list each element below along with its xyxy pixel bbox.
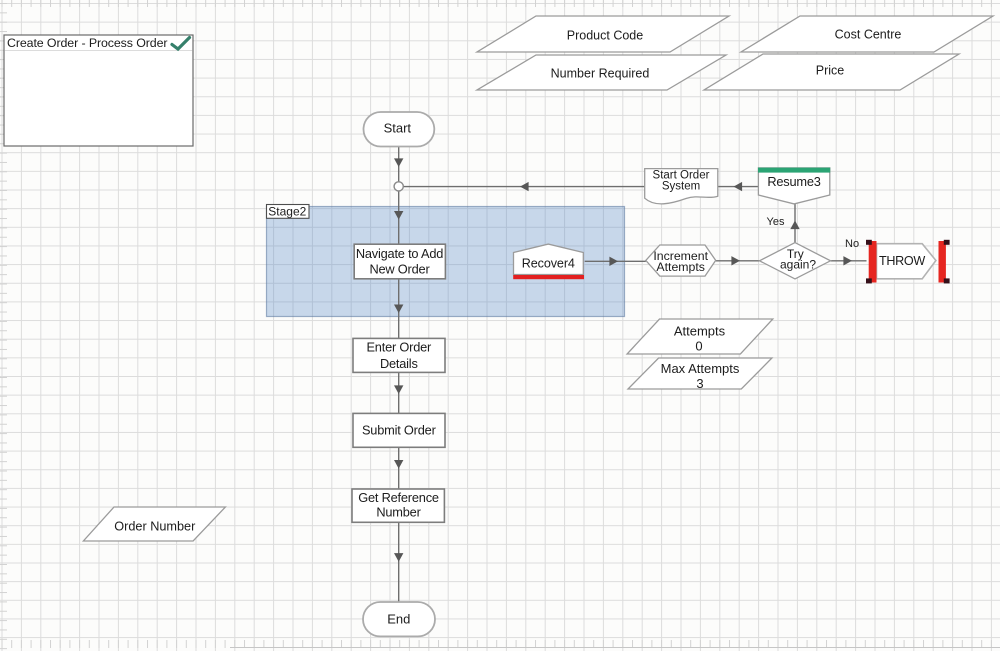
svg-text:Cost Centre: Cost Centre <box>835 28 902 42</box>
svg-text:THROW: THROW <box>879 254 925 268</box>
svg-text:System: System <box>662 180 700 192</box>
svg-text:Submit Order: Submit Order <box>362 423 437 438</box>
svg-text:Get Reference: Get Reference <box>358 490 439 505</box>
svg-text:Yes: Yes <box>767 216 785 228</box>
svg-text:Price: Price <box>816 64 845 78</box>
svg-text:No: No <box>845 238 859 250</box>
svg-text:Navigate to Add: Navigate to Add <box>356 246 443 261</box>
svg-text:Number: Number <box>376 505 421 520</box>
svg-text:Create Order - Process Order: Create Order - Process Order <box>7 36 167 50</box>
svg-text:Resume3: Resume3 <box>767 174 820 189</box>
svg-text:Number Required: Number Required <box>551 67 650 81</box>
svg-text:Enter Order: Enter Order <box>366 340 432 355</box>
svg-text:New Order: New Order <box>369 262 430 277</box>
svg-text:Order Number: Order Number <box>114 520 196 534</box>
svg-text:Product Code: Product Code <box>567 29 643 43</box>
svg-text:Start: Start <box>384 120 412 135</box>
svg-text:0: 0 <box>695 338 702 353</box>
svg-text:Attempts: Attempts <box>656 260 705 274</box>
svg-text:Details: Details <box>380 356 418 371</box>
svg-text:3: 3 <box>696 376 703 391</box>
svg-text:Stage2: Stage2 <box>268 205 306 219</box>
svg-text:End: End <box>387 612 410 627</box>
svg-text:Recover4: Recover4 <box>522 256 575 270</box>
svg-text:Max Attempts: Max Attempts <box>661 361 740 376</box>
svg-text:again?: again? <box>780 258 816 272</box>
svg-text:Attempts: Attempts <box>674 324 726 339</box>
